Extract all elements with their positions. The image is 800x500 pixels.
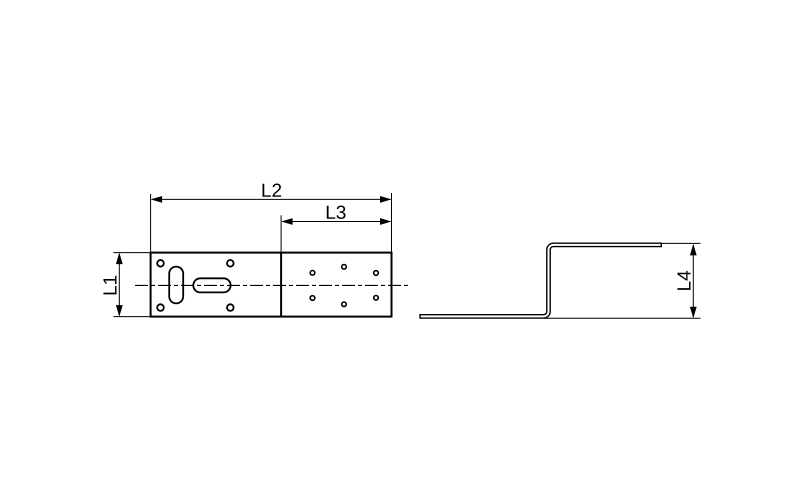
hole top-left [157, 260, 164, 267]
small hole r1c2 [342, 265, 347, 270]
centerline (dash-dot axis of plate, top view) [135, 284, 408, 286]
extension line right (for L2/L3) [391, 193, 393, 252]
extension line bottom (for L1) [113, 316, 149, 318]
small hole r2c2 [342, 302, 347, 307]
extension line left (for L2) [150, 194, 152, 252]
dimension line L4 [692, 245, 694, 317]
small hole r2c1 [310, 296, 315, 301]
horizontal slot [193, 278, 230, 292]
hole bottom-left [157, 304, 164, 311]
extension line top flange (for L4) [661, 242, 700, 244]
plate outline (top view) [151, 253, 392, 317]
hole top-second [227, 260, 234, 267]
hole bottom-second [227, 304, 234, 311]
extension line bottom (for L4) [544, 317, 701, 319]
vertical slot [169, 267, 183, 304]
divider line between plate sections [280, 253, 282, 317]
dimension line L1 [118, 254, 120, 315]
extension line divider (for L3) [280, 215, 282, 251]
label L3 [327, 206, 346, 219]
dimension line L3 [283, 221, 391, 223]
small hole r1c1 [310, 271, 315, 276]
Z-profile bracket (side view) [420, 243, 661, 318]
dimension line L2 [152, 198, 390, 200]
label L2 [262, 184, 281, 197]
extension line top (for L1) [113, 252, 149, 254]
label L4 [677, 271, 690, 290]
small hole r2c3 [374, 296, 379, 301]
small hole r1c3 [374, 271, 379, 276]
label L1 [103, 276, 116, 295]
